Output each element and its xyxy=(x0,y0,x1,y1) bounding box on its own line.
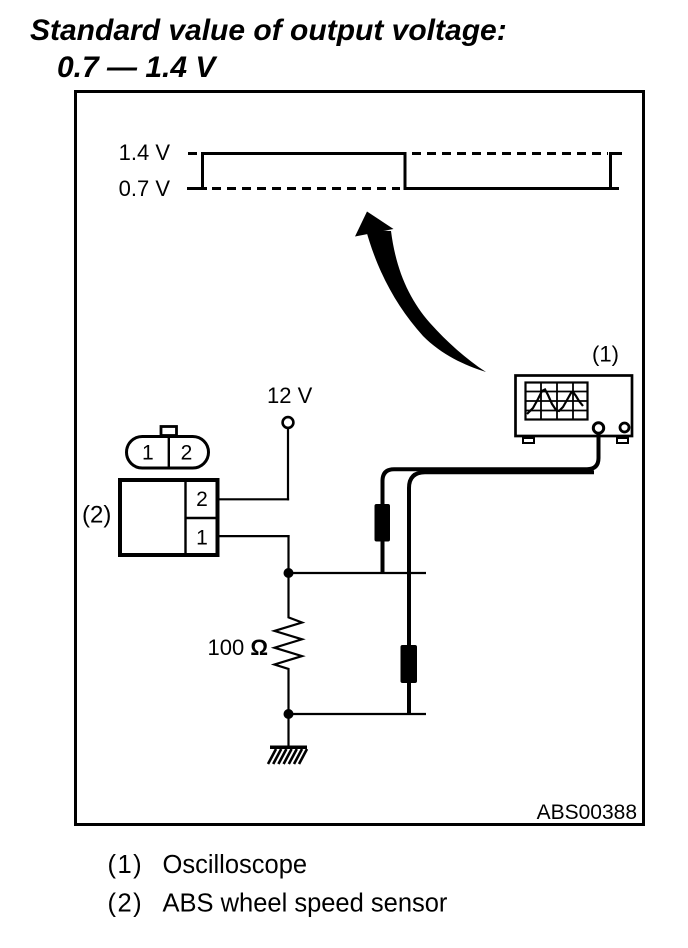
svg-text:100 Ω: 100 Ω xyxy=(208,635,268,660)
svg-text:1: 1 xyxy=(142,442,154,465)
svg-text:2: 2 xyxy=(196,488,208,511)
svg-text:(1): (1) xyxy=(592,342,619,367)
svg-text:(2): (2) xyxy=(82,502,111,529)
svg-text:ABS wheel speed sensor: ABS wheel speed sensor xyxy=(163,890,448,918)
svg-text:0.7 V: 0.7 V xyxy=(119,176,171,201)
svg-text:0.7 — 1.4 V: 0.7 — 1.4 V xyxy=(57,51,218,84)
svg-text:Oscilloscope: Oscilloscope xyxy=(163,851,308,879)
svg-text:(1): (1) xyxy=(108,851,144,879)
svg-text:(2): (2) xyxy=(108,890,144,918)
svg-text:1.4 V: 1.4 V xyxy=(119,140,171,165)
svg-text:2: 2 xyxy=(181,442,193,465)
svg-text:Standard value of output volta: Standard value of output voltage: xyxy=(30,14,507,47)
svg-text:12 V: 12 V xyxy=(267,383,313,408)
svg-text:1: 1 xyxy=(196,527,208,550)
svg-text:ABS00388: ABS00388 xyxy=(537,801,637,824)
